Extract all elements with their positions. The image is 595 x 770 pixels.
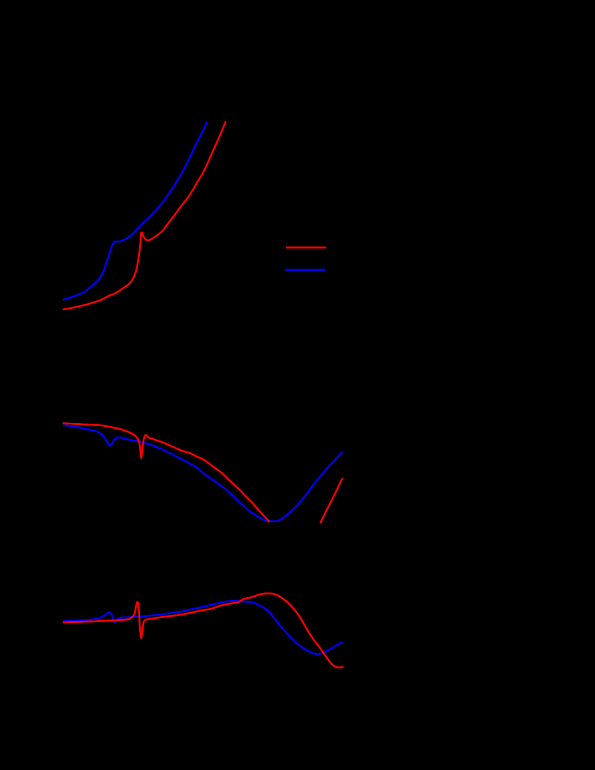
middle panel blue curve [63, 425, 343, 521]
middle panel red curve right segment [320, 478, 342, 523]
legend blue line [285, 269, 325, 271]
top panel red curve [63, 121, 226, 309]
bottom panel blue curve [63, 601, 343, 654]
legend red line [286, 247, 326, 249]
top panel blue curve [63, 121, 208, 299]
bottom panel red curve [63, 593, 343, 667]
middle panel red curve left segment [63, 423, 270, 522]
